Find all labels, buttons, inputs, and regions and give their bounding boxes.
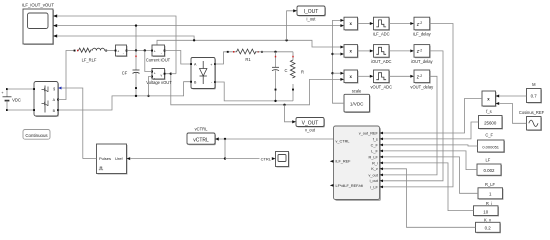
capacitor CF [122, 51, 140, 96]
wire pulses output to gate riser [83, 158, 97, 160]
wire R_LF to controller [383, 157, 478, 193]
wire bridge minus to load ground [215, 82, 293, 102]
svg-text:Current iOUT: Current iOUT [146, 58, 171, 63]
svg-text:f_s: f_s [373, 137, 378, 141]
wire R_i to controller [383, 163, 474, 211]
svg-text:LF*diLF_REF/dt: LF*diLF_REF/dt [336, 184, 364, 188]
wire delay3 to controller v_out [383, 76, 437, 175]
svg-text:Pulses: Pulses [99, 156, 111, 161]
svg-text:VDC: VDC [12, 98, 21, 103]
svg-text:+: + [154, 71, 156, 75]
constant f_s = 25600 [479, 109, 504, 130]
product block row3 (1/VDC x v_out) [340, 70, 358, 84]
svg-text:R_LF: R_LF [369, 155, 379, 159]
svg-text:vCTRL: vCTRL [193, 137, 209, 143]
wire delay1 to controller i_LF [383, 24, 453, 187]
wire product1 to ADC1 [358, 22, 374, 25]
svg-text:+: + [117, 49, 119, 53]
voltage measurement Voltage vOUT [146, 69, 172, 85]
diode bridge U1 [190, 58, 216, 90]
wire scope input 2 (iLF) to product 1 [57, 25, 341, 27]
powergui Continuous [23, 130, 50, 140]
svg-text:10: 10 [483, 210, 488, 215]
constant R_LF = 1 [478, 182, 504, 200]
current measurement Current iOUT [146, 45, 171, 63]
svg-text:i_LF: i_LF [370, 185, 378, 189]
svg-text:LF_RLF: LF_RLF [82, 58, 97, 63]
scope iLF_iOUT_vOUT [22, 3, 57, 46]
node junction iLF tap [135, 24, 137, 50]
wire ADC1 to delay1 [389, 22, 414, 25]
wire converter B ground rail to bridge B [58, 82, 191, 110]
goto V_OUT [292, 118, 325, 133]
constant K_v = 0.2 [476, 217, 502, 233]
pwm generator Pulses [97, 144, 131, 175]
signal label CTRL [260, 156, 273, 162]
svg-text:R_i: R_i [372, 161, 378, 165]
controller subsystem i_CTRL [330, 126, 383, 201]
svg-text:1/VDC: 1/VDC [350, 101, 364, 106]
svg-text:v_CTRL: v_CTRL [336, 140, 350, 144]
wire delay2 to controller i_out [383, 51, 443, 181]
delay iLF_delay [413, 17, 432, 36]
svg-text:K_v: K_v [371, 167, 378, 171]
svg-text:scale: scale [352, 89, 362, 94]
wire LF to controller L_F [383, 151, 477, 170]
svg-text:I_OUT: I_OUT [304, 9, 319, 15]
svg-text:C: C [285, 68, 288, 73]
wire C_F to controller [383, 145, 478, 146]
svg-text:v: v [161, 74, 163, 78]
resistor R [290, 52, 304, 101]
svg-text:iLF_iOUT_vOUT: iLF_iOUT_vOUT [22, 3, 54, 8]
wire M to product [499, 95, 526, 97]
wire gate from pulses [62, 88, 83, 159]
svg-text:R1: R1 [245, 57, 251, 62]
svg-text:iOUT_ADC: iOUT_ADC [371, 59, 392, 64]
svg-text:R_i: R_i [486, 201, 492, 206]
converter full-bridge (MOSFET) [33, 82, 61, 118]
svg-text:+: + [1, 90, 4, 95]
wire f_s to controller [383, 122, 479, 139]
quantizer iLF_ADC [373, 17, 390, 36]
svg-text:Voltage vOUT: Voltage vOUT [146, 80, 172, 85]
constant M = 0.7 [527, 82, 543, 104]
product block row1 (iLF x 1/VDC) [340, 17, 358, 31]
svg-text:L_F: L_F [371, 149, 378, 153]
svg-text:CF: CF [122, 71, 128, 76]
wire ADC2 to delay2 [389, 49, 414, 52]
wire Voltage vOUT plus tap [145, 51, 152, 72]
svg-text:25600: 25600 [484, 120, 497, 125]
product block f_s reference (M x Cosinus_REF) [482, 91, 499, 107]
wire ADC3 to delay3 [389, 75, 414, 78]
resistor R1 [237, 49, 263, 62]
svg-text:iLF_delay: iLF_delay [413, 32, 432, 37]
goto tag vCTRL [187, 127, 219, 146]
svg-text:iOUT_delay: iOUT_delay [411, 59, 434, 64]
svg-text:i_out: i_out [306, 17, 316, 22]
wire R1 to load node [256, 51, 293, 53]
series RL branch LF_RLF [74, 48, 116, 62]
wire bridge plus to R1 branch [215, 51, 237, 64]
wire Voltage vOUT minus to ground rail [147, 77, 152, 98]
svg-text:iLF_REF: iLF_REF [336, 160, 352, 164]
wire v_CTRL from controller [219, 138, 334, 140]
dc source VDC [1, 88, 21, 111]
svg-text:M: M [532, 82, 536, 87]
quantizer vOUT_ADC [370, 70, 392, 89]
svg-text:v_out_REF: v_out_REF [359, 131, 379, 135]
svg-text:v_out: v_out [369, 173, 379, 177]
wire product to v_out_REF [383, 99, 482, 134]
svg-text:C_F: C_F [371, 143, 379, 147]
wire VDC to converter [7, 89, 34, 110]
wire product2 to ADC2 [358, 49, 374, 52]
wire scope input 1 (v_out) [57, 16, 176, 74]
current measurement iLF [115, 45, 128, 57]
wire v_out to V_OUT goto [285, 105, 293, 122]
wire i_out signal to product 2 [157, 39, 341, 47]
svg-text:0.002: 0.002 [484, 168, 496, 173]
capacitor C [272, 52, 288, 101]
wire node rail to Current iOUT [127, 49, 153, 51]
wire i_out to I_OUT goto [287, 11, 294, 41]
constant C_F = 0.000051 [478, 132, 506, 153]
quantizer iOUT_ADC [371, 45, 392, 64]
scope CTRL [272, 152, 290, 168]
svg-text:R_LF: R_LF [485, 182, 496, 187]
gain 1/VDC [344, 89, 371, 113]
goto I_OUT [293, 6, 326, 22]
svg-text:0.7: 0.7 [531, 94, 538, 99]
svg-text:K_v: K_v [484, 217, 492, 222]
svg-text:-: - [161, 51, 162, 55]
svg-text:iLF_ADC: iLF_ADC [373, 32, 390, 37]
constant LF = 0.002 [477, 158, 502, 177]
wire converter A to filter branch [58, 51, 75, 100]
svg-text:v_out: v_out [305, 128, 316, 133]
delay vOUT_delay [410, 70, 434, 89]
wire Cosinus_REF to product [499, 104, 526, 124]
svg-text:vOUT_ADC: vOUT_ADC [370, 84, 392, 89]
svg-text:vOUT_delay: vOUT_delay [410, 84, 434, 89]
svg-text:-: - [123, 51, 124, 55]
product block row2 (i_out x 1/VDC) [340, 45, 358, 59]
wire vCTRL branch to pulses and scope [130, 139, 272, 160]
wire Current iOUT to bridge A [165, 51, 192, 65]
svg-text:Continuous: Continuous [25, 133, 48, 138]
svg-text:f_s: f_s [486, 109, 491, 114]
svg-text:0.2: 0.2 [485, 226, 492, 231]
svg-text:LF: LF [486, 158, 491, 163]
svg-text:i_out: i_out [369, 179, 378, 183]
wire scope input 3 (i_out tap) [57, 36, 194, 40]
wire K_v to controller [383, 169, 476, 228]
svg-text:Uref: Uref [115, 156, 123, 161]
delay iOUT_delay [411, 45, 434, 64]
svg-text:g: g [53, 87, 55, 91]
wire v_out signal rail [165, 73, 341, 107]
svg-text:CTRL: CTRL [261, 156, 272, 161]
sine source Cosinus_REF [519, 110, 545, 131]
constant R_i = 10 [474, 201, 500, 217]
wire 1/VDC to products [331, 20, 344, 103]
svg-text:0.000051: 0.000051 [482, 144, 499, 149]
svg-text:C_F: C_F [485, 132, 493, 137]
wire product3 to ADC3 [358, 75, 374, 78]
svg-text:R: R [301, 69, 304, 74]
svg-text:+: + [154, 49, 156, 53]
svg-text:V_OUT: V_OUT [302, 120, 319, 126]
svg-text:vCTRL: vCTRL [195, 127, 208, 132]
svg-text:Cosinus_REF: Cosinus_REF [519, 110, 545, 115]
